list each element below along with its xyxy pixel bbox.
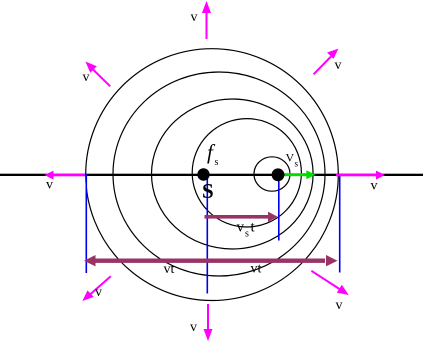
wavefront circle W3 — [152, 99, 314, 249]
svg-text:v: v — [336, 298, 343, 313]
svg-text:s: s — [245, 228, 249, 239]
svg-text:v: v — [371, 179, 378, 194]
svg-text:v: v — [237, 220, 245, 236]
magenta wave-velocity arrow NE — [314, 49, 339, 75]
wavefront circle W5 (smallest, around moving source) — [254, 157, 290, 191]
purple arrow v_s t (source displacement) — [205, 212, 278, 222]
label v_s t — [237, 220, 256, 240]
svg-text:S: S — [202, 179, 214, 203]
svg-text:v: v — [190, 320, 197, 335]
label f_s (source frequency) — [207, 140, 219, 168]
blue tick line below current source position — [278, 176, 280, 241]
wavefront circle W2 — [113, 72, 325, 276]
svg-text:vt: vt — [164, 262, 175, 277]
svg-text:s: s — [215, 157, 219, 168]
magenta wave-velocity arrow N (up) — [202, 1, 211, 39]
dot: current source position — [272, 168, 285, 181]
svg-text:v: v — [46, 178, 53, 193]
label V_s (source velocity) — [286, 151, 299, 169]
wavefront circle W1 (largest) — [86, 49, 339, 301]
blue tick line below source origin S — [206, 176, 208, 294]
svg-text:V: V — [286, 151, 295, 165]
svg-text:v: v — [83, 70, 90, 85]
horizontal axis — [0, 174, 423, 176]
svg-text:v: v — [191, 10, 198, 25]
magenta wave-velocity arrow SW — [82, 276, 110, 301]
wavefront circle W4 — [192, 119, 301, 227]
green source-velocity arrow Vs — [285, 170, 316, 179]
magenta wave-velocity arrow E (right) — [336, 171, 385, 180]
svg-text:v: v — [335, 58, 342, 73]
blue tick line at left wavefront edge — [85, 174, 87, 273]
magenta wave-velocity arrow S (down) — [204, 304, 213, 341]
magenta wave-velocity arrow NW — [85, 62, 110, 87]
svg-text:s: s — [295, 158, 299, 168]
dot: original source position S — [197, 168, 209, 180]
blue tick line at right wavefront edge — [339, 174, 341, 273]
purple double arrow vt (wave travel distance) — [84, 255, 338, 266]
svg-text:vt: vt — [251, 262, 262, 277]
magenta wave-velocity arrow W (left) — [45, 171, 86, 180]
svg-text:v: v — [95, 285, 102, 300]
magenta wave-velocity arrow SE — [311, 271, 348, 295]
